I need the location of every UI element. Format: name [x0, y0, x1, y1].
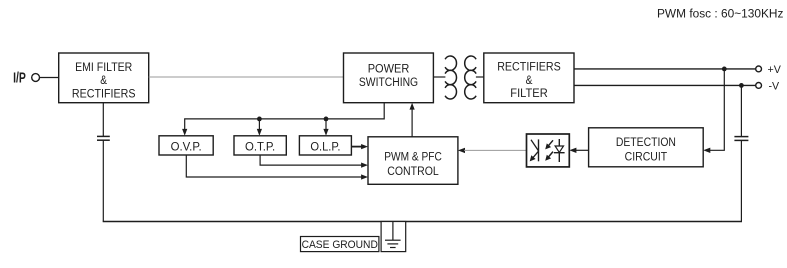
wire: detection circuit to optocoupler	[576, 149, 589, 151]
wire: feed drop to O.L.P.	[325, 119, 327, 131]
svg-text:SWITCHING: SWITCHING	[359, 76, 418, 89]
transformer T1 secondary winding	[465, 56, 476, 99]
junction: feed line to O.L.P.	[324, 117, 329, 122]
svg-text:DETECTION: DETECTION	[616, 136, 676, 149]
capacitor C2 (output)	[734, 137, 748, 141]
wire: O.T.P. to PWM control	[260, 155, 363, 165]
svg-text:RECTIFIERS: RECTIFIERS	[72, 88, 136, 101]
block: O.T.P.	[234, 136, 286, 155]
arrow into detection circuit right side	[703, 148, 710, 153]
block: RECTIFIERS & FILTER	[484, 53, 574, 103]
svg-text:EMI FILTER: EMI FILTER	[75, 61, 132, 74]
wire: -V rail down to output capacitor	[740, 85, 742, 136]
wire: PWM control up to power switching	[411, 107, 413, 137]
svg-text:PWM fosc : 60~130KHz: PWM fosc : 60~130KHz	[657, 6, 783, 20]
svg-text:O.L.P.: O.L.P.	[310, 140, 340, 154]
wire: transformer secondary to rectifiers	[476, 76, 484, 78]
arrow into PWM control left (from O.T.P.)	[361, 163, 368, 168]
arrow into O.V.P. top	[182, 129, 187, 136]
wire: -V rail	[574, 84, 756, 86]
svg-text:CONTROL: CONTROL	[387, 165, 439, 178]
block: EMI FILTER & RECTIFIERS	[59, 53, 149, 103]
ground symbol (case ground)	[381, 222, 406, 252]
svg-text:PWM & PFC: PWM & PFC	[384, 151, 442, 164]
arrow into PWM control right (from optocoupler)	[458, 148, 465, 153]
svg-text:+V: +V	[768, 64, 782, 76]
svg-text:&: &	[100, 74, 107, 87]
wire: output capacitor down to ground bus	[740, 140, 742, 221]
junction: +V rail to detection drop	[722, 67, 727, 72]
arrow into PWM control left (from O.L.P.)	[361, 144, 368, 149]
svg-text:O.T.P.: O.T.P.	[245, 139, 275, 154]
svg-text:O.V.P.: O.V.P.	[171, 139, 202, 154]
wire: ground bus	[103, 221, 742, 223]
svg-text:CIRCUIT: CIRCUIT	[625, 151, 667, 164]
arrow into power switching bottom	[410, 103, 415, 110]
arrow into optocoupler right (from detection circuit)	[569, 148, 576, 153]
node +V output terminal	[756, 64, 782, 76]
block: POWER SWITCHING	[344, 53, 434, 103]
wire: input capacitor down to ground bus	[102, 140, 104, 221]
wire: +V rail	[574, 68, 756, 70]
wire: O.V.P. to PWM control	[186, 155, 363, 177]
arrow into O.L.P. top	[323, 129, 328, 136]
svg-text:POWER: POWER	[368, 62, 410, 76]
node -V output terminal	[756, 81, 780, 93]
block: PWM & PFC CONTROL	[368, 137, 458, 185]
node I/P input terminal	[13, 70, 39, 86]
transformer T1 primary winding	[445, 56, 456, 99]
svg-text:-V: -V	[769, 81, 780, 93]
svg-text:FILTER: FILTER	[510, 86, 547, 100]
wire: optocoupler to PWM control	[464, 149, 527, 151]
wire: +V rail down to detection circuit	[709, 69, 725, 150]
block: DETECTION CIRCUIT	[589, 128, 704, 167]
svg-text:RECTIFIERS: RECTIFIERS	[497, 61, 561, 74]
svg-text:&: &	[526, 74, 533, 87]
block label: CASE GROUND	[301, 237, 379, 252]
block: O.L.P.	[299, 136, 351, 155]
capacitor C1 (input)	[97, 136, 110, 140]
block: O.V.P.	[159, 136, 213, 155]
arrow into O.T.P. top	[257, 129, 262, 136]
wire: EMI filter to power switching	[149, 76, 344, 78]
wire: I/P terminal to EMI filter	[39, 77, 58, 79]
wire: power switching feed to protection blocks	[185, 103, 385, 131]
wire: O.L.P. to PWM control	[351, 146, 363, 148]
wire: feed drop to O.T.P.	[258, 119, 260, 131]
wire: EMI filter down to input capacitor	[102, 103, 104, 136]
junction: feed line to O.T.P.	[257, 117, 262, 122]
arrow into PWM control left (from O.V.P.)	[361, 174, 368, 179]
wire: power switching to transformer primary	[433, 76, 445, 78]
svg-text:I/P: I/P	[13, 70, 26, 86]
junction: -V rail to capacitor drop	[739, 83, 744, 88]
optocoupler U1	[527, 134, 570, 167]
svg-text:CASE GROUND: CASE GROUND	[302, 239, 379, 251]
